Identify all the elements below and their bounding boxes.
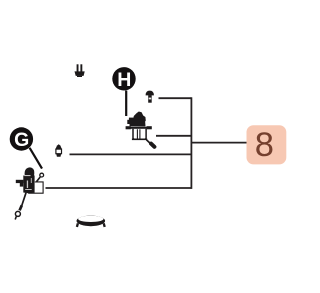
svg-text:G: G bbox=[14, 129, 29, 151]
svg-text:8: 8 bbox=[255, 126, 274, 164]
svg-text:H: H bbox=[117, 69, 131, 91]
